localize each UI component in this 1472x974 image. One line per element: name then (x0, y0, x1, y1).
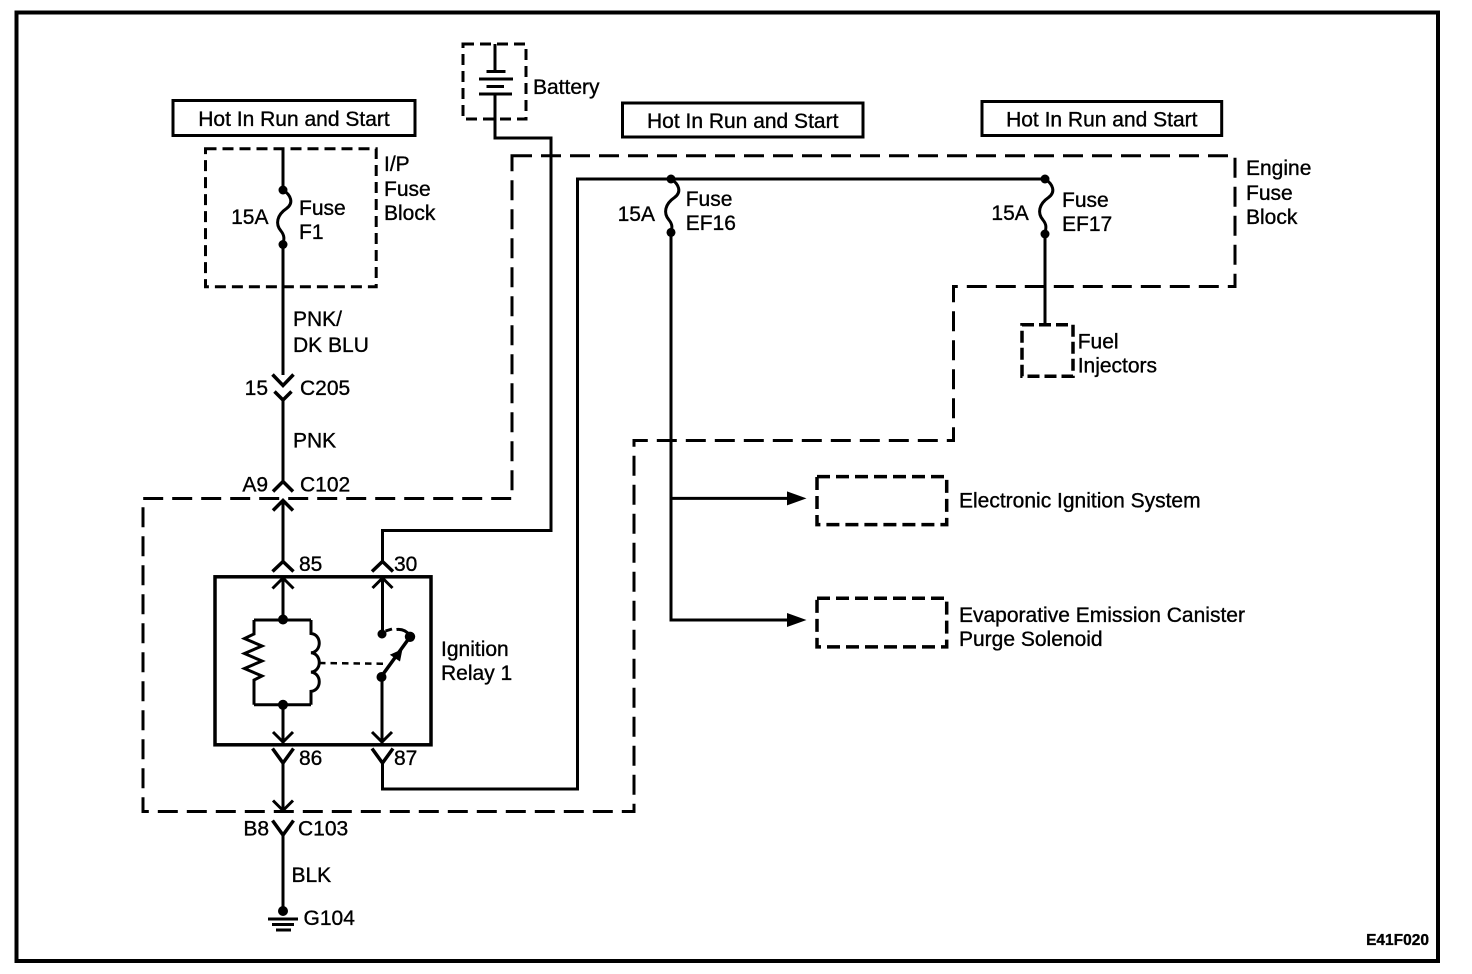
svg-text:Block: Block (384, 202, 436, 225)
label PNK/ DK BLU (293, 308, 369, 357)
wire fuse F1 to connector C205 (282, 245, 285, 376)
arrowhead to electronic ignition system (787, 491, 807, 505)
wire C205 to connector C102 (282, 400, 285, 482)
junction dot fuse EF17 top (1041, 175, 1050, 184)
svg-text:Injectors: Injectors (1078, 355, 1157, 378)
label Fuse EF17 (1062, 189, 1112, 236)
svg-text:Hot In Run and Start: Hot In Run and Start (647, 110, 839, 133)
relay coil loop bottom wire (254, 703, 311, 706)
label Fuse EF16 (686, 188, 736, 235)
svg-text:C102: C102 (300, 474, 350, 497)
relay K1 "Ignition Relay 1" box (215, 577, 431, 745)
svg-text:Hot In Run and Start: Hot In Run and Start (198, 108, 390, 131)
resistor (relay coil left branch) (245, 620, 263, 705)
coil-to-blade actuation dashed link (319, 662, 388, 665)
fuse EF17 element (1040, 179, 1053, 234)
switch lower dot (pin 87 side) (377, 672, 387, 682)
svg-text:Block: Block (1246, 206, 1298, 229)
relay pin 30 terminal (372, 562, 393, 572)
wire C103 to ground (282, 835, 285, 908)
svg-text:E41F020: E41F020 (1366, 932, 1429, 949)
label Fuse F1 (299, 197, 346, 244)
relay pin 86 terminal (273, 749, 294, 764)
connector C102 pin A9 (273, 482, 293, 511)
svg-text:BLK: BLK (292, 864, 332, 887)
wire battery to relay pin 30 (383, 94, 552, 561)
svg-text:Fuse: Fuse (299, 197, 346, 220)
svg-text:Evaporative Emission Canister: Evaporative Emission Canister (959, 604, 1245, 627)
switch NO contact dot (405, 632, 415, 642)
svg-text:Purge Solenoid: Purge Solenoid (959, 628, 1103, 651)
switch fixed contact dot (pin 30) (378, 630, 387, 639)
label Evaporative Emission Canister Purge Solenoid (959, 604, 1245, 651)
svg-text:B8: B8 (243, 818, 269, 841)
junction dot fuse EF16 top (667, 175, 676, 184)
engine fuse block dashed boundary polygon (143, 156, 1235, 812)
svg-text:C205: C205 (300, 377, 350, 400)
evaporative emission canister purge solenoid dashed box (817, 598, 947, 647)
svg-text:Fuse: Fuse (1062, 189, 1109, 212)
relay pin 85 terminal (273, 562, 294, 572)
ground G104 symbol (268, 906, 298, 930)
svg-text:15A: 15A (618, 203, 655, 226)
arrowhead to evap canister purge solenoid (787, 613, 807, 627)
net label box "Hot In Run and Start" (left) (173, 101, 415, 136)
svg-text:Fuse: Fuse (384, 178, 431, 201)
junction dot fuse EF16 bottom (667, 228, 676, 237)
inductor coil (relay coil right branch) (311, 620, 319, 705)
label Fuel Injectors (1078, 331, 1157, 378)
wire from Hot feed into fuse F1 (282, 149, 285, 190)
svg-text:G104: G104 (304, 907, 356, 930)
relay coil exit arrow to pin 86 (273, 705, 293, 744)
svg-text:DK BLU: DK BLU (293, 334, 369, 357)
label I/P Fuse Block (384, 153, 436, 225)
connector C205 pin 15 (273, 375, 294, 401)
electronic ignition system dashed box (817, 477, 947, 525)
svg-text:85: 85 (299, 553, 322, 576)
net label box "Hot In Run and Start" (middle) (623, 103, 864, 137)
net label box "Hot In Run and Start" (right) (982, 102, 1222, 136)
junction dot fuse F1 top (279, 186, 288, 195)
svg-text:86: 86 (299, 747, 322, 770)
svg-text:Battery: Battery (533, 76, 600, 99)
fuse EF16 element (666, 179, 679, 232)
battery dashed enclosure (463, 44, 526, 119)
label Engine Fuse Block (1246, 157, 1311, 229)
svg-text:PNK: PNK (293, 430, 336, 453)
svg-text:Ignition: Ignition (441, 638, 509, 661)
junction dot coil bottom (278, 700, 288, 710)
label Ignition Relay 1 (441, 638, 512, 685)
wire branch to electronic ignition system (671, 497, 790, 500)
wire switch to pin 87 arrow (372, 677, 392, 744)
wire EF16 down with branches (671, 232, 790, 620)
svg-text:EF17: EF17 (1062, 213, 1112, 236)
svg-text:C103: C103 (298, 818, 348, 841)
svg-text:30: 30 (394, 553, 417, 576)
svg-text:15: 15 (245, 377, 268, 400)
svg-text:Engine: Engine (1246, 157, 1311, 180)
junction dot fuse F1 bottom (279, 240, 288, 249)
fuse F1 element (278, 190, 291, 245)
svg-text:I/P: I/P (384, 153, 410, 176)
wire EF17 to fuel injectors (1044, 234, 1047, 325)
connector C103 pin B8 (273, 821, 294, 836)
svg-text:F1: F1 (299, 221, 324, 244)
wire pin 87 to engine fuse rail (383, 179, 1046, 789)
svg-text:Fuse: Fuse (686, 188, 733, 211)
svg-text:15A: 15A (991, 202, 1028, 225)
svg-text:Fuel: Fuel (1078, 331, 1119, 354)
junction dot coil top (278, 615, 288, 625)
wire pin 86 down to block boundary arrow (273, 763, 293, 811)
svg-text:Relay 1: Relay 1 (441, 662, 512, 685)
svg-text:87: 87 (394, 747, 417, 770)
wire C102 to relay pin 85 (282, 501, 285, 562)
svg-text:A9: A9 (242, 474, 268, 497)
I/P fuse block dashed enclosure (206, 149, 377, 287)
relay coil branch entry arrow (273, 578, 294, 620)
relay coil loop top wire (254, 619, 311, 622)
svg-text:Fuse: Fuse (1246, 182, 1293, 205)
svg-text:PNK/: PNK/ (293, 308, 342, 331)
switch contact arc (386, 629, 410, 635)
relay switch entry arrow from pin 30 (373, 578, 393, 635)
svg-text:Hot In Run and Start: Hot In Run and Start (1006, 109, 1198, 132)
relay pin 87 terminal (372, 749, 393, 764)
svg-text:Electronic Ignition System: Electronic Ignition System (959, 490, 1201, 513)
fuel injectors dashed box (1022, 325, 1073, 377)
blade arrowhead (390, 649, 403, 662)
svg-text:15A: 15A (231, 206, 268, 229)
junction dot fuse EF17 bottom (1041, 230, 1050, 239)
battery B1 symbol (479, 44, 513, 94)
svg-text:EF16: EF16 (686, 212, 736, 235)
switch movable blade (381, 639, 409, 677)
